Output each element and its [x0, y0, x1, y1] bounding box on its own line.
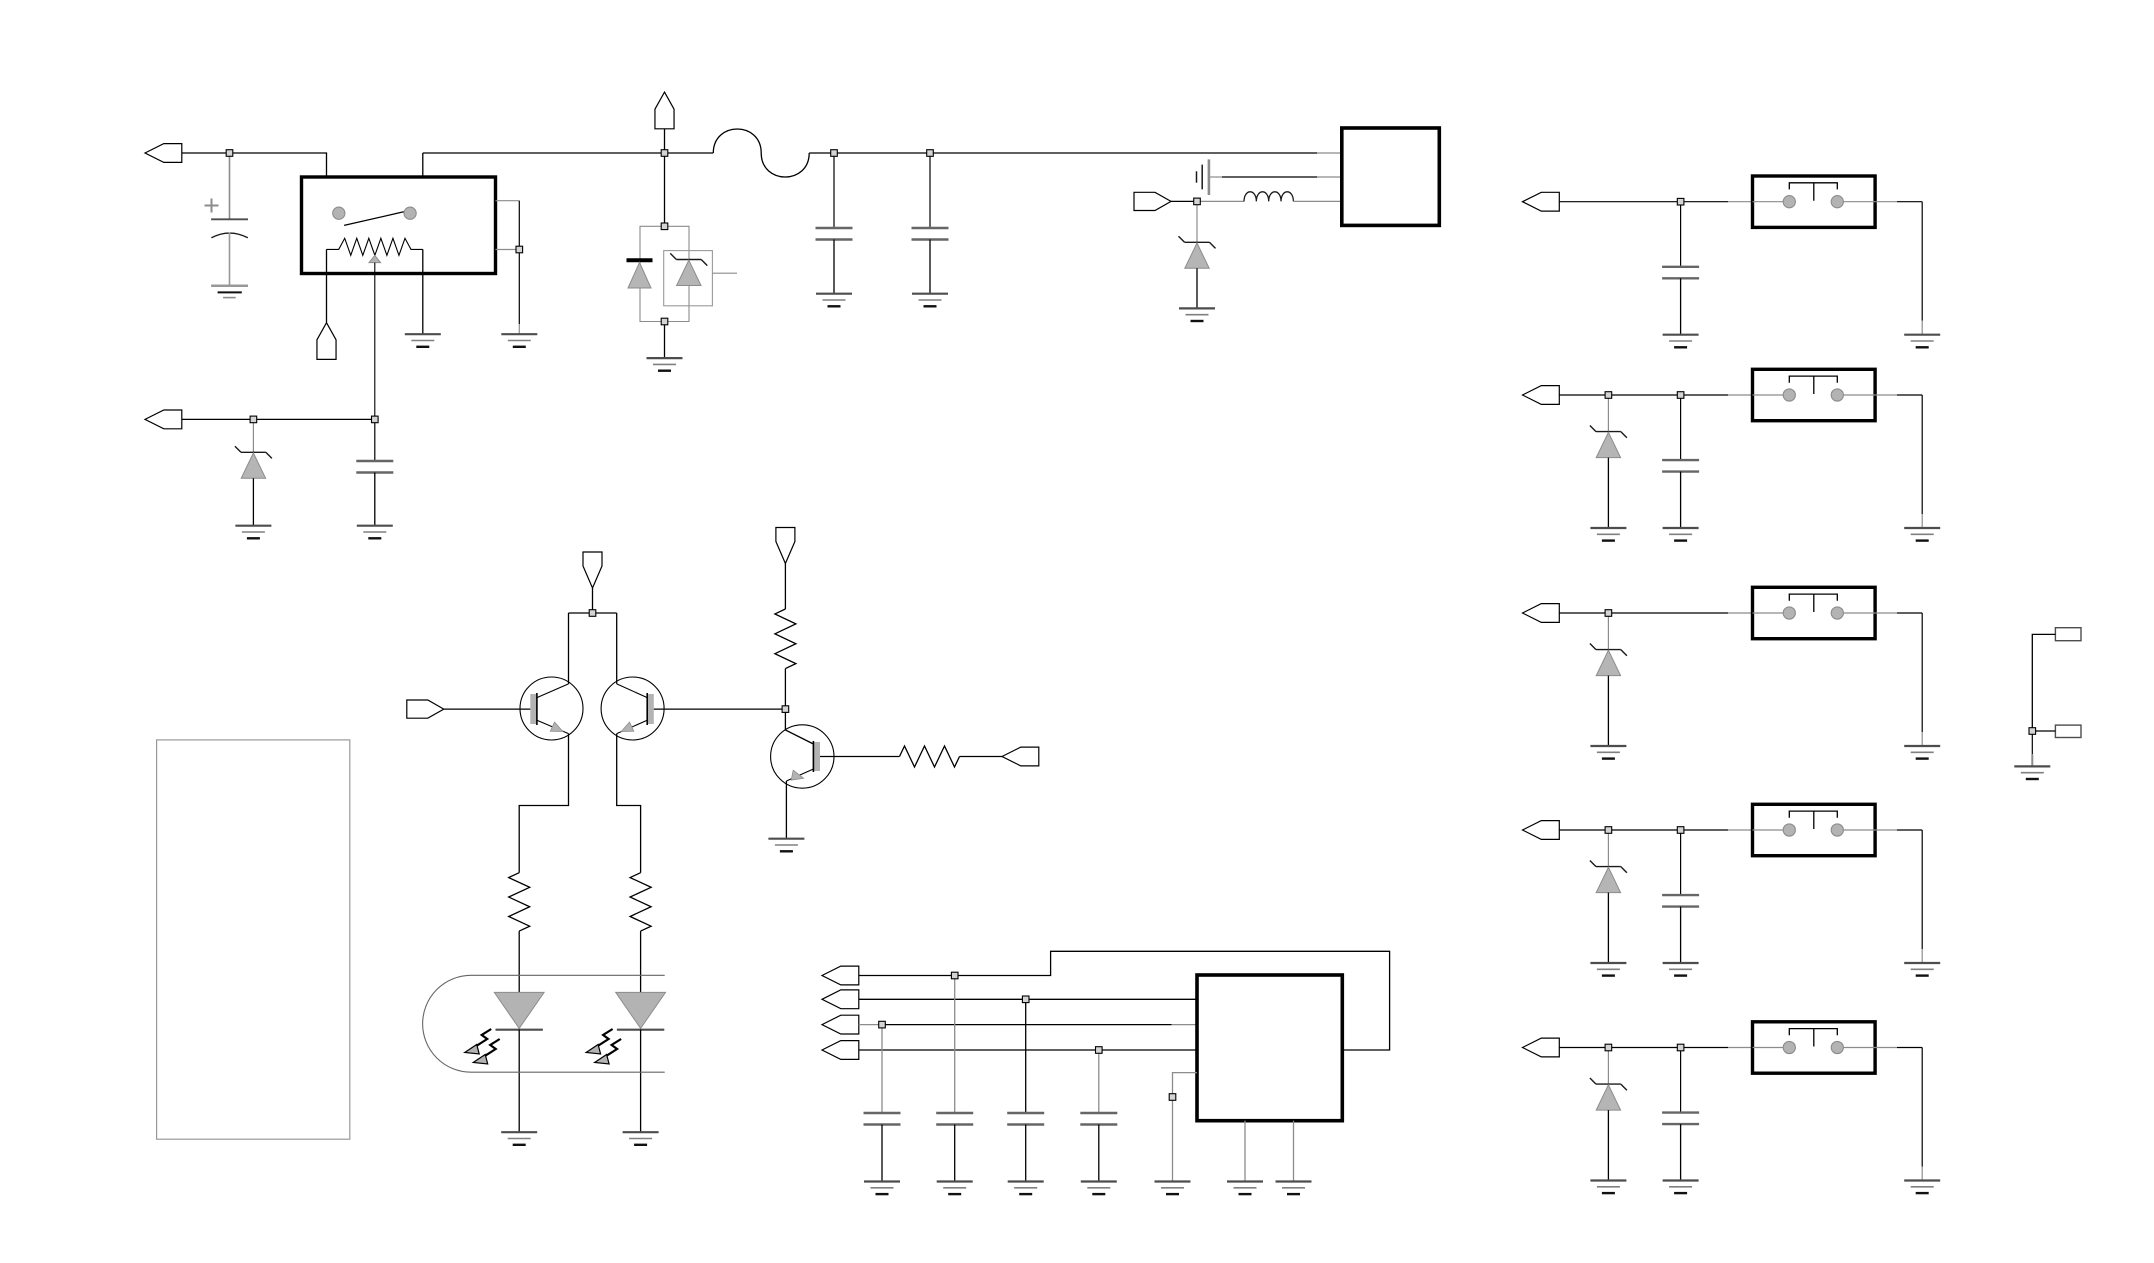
ground — [1904, 335, 1940, 348]
switch S2 actuator — [1789, 376, 1837, 394]
capacitor C10 — [1662, 398, 1699, 471]
capacitor C2 — [356, 423, 393, 473]
ground — [1663, 335, 1699, 348]
switch S1 contacts — [1753, 196, 1876, 208]
ground — [1590, 746, 1626, 759]
capacitor C6 — [936, 1113, 973, 1125]
relay switch blade — [344, 212, 404, 226]
wire switch 4 output to ground — [1875, 830, 1922, 963]
junction — [1605, 610, 1612, 617]
wire net label N1 to node — [2032, 634, 2055, 727]
connector P9 (drive B) — [1002, 747, 1039, 766]
wire node to ground — [2031, 734, 2033, 766]
capacitor C1 polarized plus sign — [205, 199, 219, 213]
wire chassis to IC pin 2 — [1210, 176, 1342, 178]
wire capacitor to ground row 4 — [1680, 907, 1682, 963]
transistor Q3 — [771, 725, 834, 788]
zener D4 — [1179, 236, 1216, 268]
wire zener stub — [1196, 205, 1198, 243]
wire connector to resistor R4 — [784, 564, 786, 610]
wire base Q3 to resistor R3 — [820, 756, 900, 758]
junction — [1677, 198, 1684, 205]
switch S4 contacts — [1753, 824, 1876, 836]
wire zener stub row 3 — [1607, 616, 1609, 649]
zener D8 — [1590, 426, 1627, 458]
ground — [1663, 1181, 1699, 1194]
wire rail segment to relay contact 1 — [182, 153, 333, 213]
IC U2 — [1197, 975, 1342, 1121]
switch S2 body — [1753, 369, 1876, 420]
frame box (empty) — [157, 740, 350, 1139]
junction — [516, 246, 523, 253]
ground — [1179, 308, 1215, 321]
junction — [1605, 392, 1612, 399]
junction — [661, 318, 668, 325]
ground — [1590, 528, 1626, 541]
switch S3 body — [1753, 587, 1876, 638]
wire LED2 to ground — [640, 1030, 642, 1132]
connector P10 (bus 1) — [822, 966, 859, 985]
wire switch 3 output to ground — [1875, 613, 1922, 746]
ground — [816, 294, 852, 307]
wire zener to ground row 3 — [1607, 676, 1609, 746]
switch S1 body — [1753, 176, 1876, 227]
IC U1 — [1342, 128, 1440, 225]
junction — [2029, 728, 2036, 735]
wire collector tee — [569, 613, 617, 684]
connector P2 (coil drive) — [317, 323, 336, 360]
wire connector to node — [592, 588, 594, 610]
junction — [1022, 996, 1029, 1003]
junction — [1677, 1044, 1684, 1051]
wire zener stub — [252, 423, 254, 453]
wire capacitor C6 to ground — [954, 1125, 956, 1182]
wire zener stub row 2 — [1607, 398, 1609, 431]
TVS box — [664, 251, 713, 306]
ground — [501, 334, 537, 347]
wire capacitor to ground row 2 — [1680, 472, 1682, 528]
capacitor C12 — [1662, 833, 1699, 906]
wire filter cap stub 4 — [1098, 1053, 1100, 1113]
wire node to Q3 collector — [785, 712, 813, 744]
wire zener to ground — [252, 478, 254, 525]
chassis ground (rotated) — [1197, 159, 1209, 195]
wire switch 2 output to ground — [1875, 395, 1922, 528]
junction — [661, 150, 668, 157]
wire IC U2 ground pin 2 — [1293, 1121, 1295, 1182]
wire bus 3 to IC U2 — [859, 1024, 1197, 1026]
zener D10 — [1590, 861, 1627, 893]
capacitor C3 — [816, 156, 853, 239]
wire zener to ground row 4 — [1607, 893, 1609, 963]
wire capacitor C5 to ground — [881, 1125, 883, 1182]
switch S5 contacts — [1753, 1041, 1876, 1053]
zener D2 — [235, 446, 272, 478]
wire connector to junction — [1171, 200, 1194, 202]
wire resistor R1 to LED1 — [518, 931, 520, 992]
transistor Q2 — [601, 677, 664, 740]
wire crossover hump — [713, 129, 809, 177]
ground — [1590, 963, 1626, 976]
switch S4 body — [1753, 804, 1876, 855]
LED D6 — [616, 992, 666, 1029]
relay K1 body — [302, 177, 496, 274]
connector P4 (fused supply) — [655, 92, 674, 129]
junction — [589, 610, 596, 617]
connector P12 (bus 3) — [822, 1015, 859, 1034]
wire resistor R3 to connector — [960, 756, 1003, 758]
wire zener stub row 4 — [1607, 833, 1609, 866]
connector P16 (switch 3 line) — [1523, 604, 1560, 623]
capacitor C13 — [1662, 1051, 1699, 1124]
wire capacitor C4 to ground — [929, 240, 931, 294]
wire side pin to ground — [1172, 1100, 1174, 1181]
junction — [1677, 827, 1684, 834]
ground — [501, 1132, 537, 1145]
wire TVS pin — [712, 272, 737, 274]
connector P1 (battery input) — [145, 144, 182, 163]
connector P7 (drive A) — [407, 700, 444, 718]
resistor R3 — [900, 746, 960, 767]
wire net label N2 to node — [2036, 730, 2056, 732]
switch S5 body — [1753, 1022, 1876, 1073]
relay coil wiper arrow — [369, 255, 381, 262]
inductor L1 — [1200, 192, 1342, 202]
wire zener stub row 5 — [1607, 1051, 1609, 1084]
net label N2 — [2055, 725, 2081, 737]
ground — [1081, 1182, 1117, 1195]
resistor R1 — [509, 873, 530, 931]
junction — [226, 150, 233, 157]
ground — [1227, 1182, 1263, 1195]
wire switch 4 input — [1559, 829, 1752, 831]
ground — [912, 294, 948, 307]
transistor Q1 — [520, 677, 583, 740]
connector P8 (bias supply) — [776, 528, 795, 564]
junction — [927, 150, 934, 157]
wire rail to IC U1 — [809, 152, 1342, 154]
wire filter cap stub 3 — [1025, 1003, 1027, 1113]
zener D9 — [1590, 644, 1627, 676]
wire switch 1 output to ground — [1875, 202, 1922, 335]
junction — [661, 223, 668, 230]
capacitor C8 — [1080, 1113, 1117, 1125]
capacitor C4 — [912, 156, 949, 239]
wire TVS block feed — [664, 156, 666, 223]
wire lower rail — [182, 418, 375, 420]
junction — [1096, 1047, 1103, 1054]
wire IC U2 ground pin 1 — [1244, 1121, 1246, 1182]
ground — [1904, 746, 1940, 759]
wire connector to rail — [664, 129, 666, 150]
junction — [831, 150, 838, 157]
ground — [211, 286, 248, 298]
connector P18 (switch 5 line) — [1523, 1038, 1560, 1057]
diode D1 — [627, 260, 653, 288]
wire capacitor C7 to ground — [1025, 1125, 1027, 1182]
wire filter cap stub 2 — [954, 979, 956, 1113]
wire resistor R2 to LED2 — [640, 931, 642, 992]
wire bus 1 loop to IC U2 right pin — [859, 951, 1390, 1050]
connector P17 (switch 4 line) — [1523, 821, 1560, 840]
zener D11 — [1590, 1078, 1627, 1110]
ground — [1276, 1182, 1312, 1195]
wire bus 2 to IC U2 — [859, 998, 1197, 1000]
LED D6 light arrows — [586, 1029, 621, 1064]
switch S1 actuator — [1789, 183, 1837, 201]
ground — [937, 1182, 973, 1195]
wire LED1 to ground — [518, 1030, 520, 1132]
ground — [2014, 766, 2050, 779]
wire switch 5 input — [1559, 1047, 1752, 1049]
wire switch 1 input — [1559, 201, 1752, 203]
ground — [1904, 528, 1940, 541]
wire bus 4 to IC U2 — [859, 1049, 1197, 1051]
junction — [372, 416, 379, 423]
wire emitter Q3 to ground — [785, 781, 787, 839]
wire relay case pins — [496, 201, 520, 334]
capacitor C1 (polarized) — [211, 153, 248, 286]
connector P14 (switch 1 line) — [1523, 192, 1560, 211]
wire rail segment from relay contact 2 — [423, 153, 714, 213]
wire capacitor C2 to ground — [374, 473, 376, 526]
ground — [1663, 963, 1699, 976]
wire relay pin 2 to ground — [422, 249, 424, 334]
connector P5 (antenna input) — [1134, 192, 1171, 210]
relay contact left — [333, 207, 345, 219]
ground — [1155, 1182, 1191, 1195]
junction — [250, 416, 257, 423]
ground — [405, 334, 441, 347]
resistor R4 — [775, 609, 796, 669]
junction — [951, 972, 958, 979]
wire resistor R4 to node — [784, 669, 786, 706]
switch S5 actuator — [1789, 1029, 1837, 1047]
wire filter cap stub 1 — [881, 1028, 883, 1113]
wire wiper to lower rail — [374, 263, 376, 420]
optocoupler outline — [423, 975, 665, 1072]
junction — [1169, 1094, 1176, 1101]
switch S3 contacts — [1753, 607, 1876, 619]
switch S2 contacts — [1753, 389, 1876, 401]
wire zener D4 to ground — [1196, 268, 1198, 308]
junction — [1605, 827, 1612, 834]
net label N1 — [2055, 628, 2081, 641]
wire TVS to ground — [664, 325, 666, 358]
ground — [1904, 1181, 1940, 1194]
wire emitter Q1 to resistor R1 — [519, 734, 568, 873]
wire switch 2 input — [1559, 394, 1752, 396]
junction — [782, 706, 789, 713]
wire zener to ground row 2 — [1607, 458, 1609, 528]
switch S3 actuator — [1789, 594, 1837, 612]
capacitor C5 — [864, 1113, 901, 1125]
wire IC U2 side pin — [1173, 1073, 1198, 1094]
relay coil winding — [327, 238, 423, 255]
wire capacitor to ground row 5 — [1680, 1124, 1682, 1180]
wire TVS branch frame — [640, 226, 689, 321]
connector P15 (switch 2 line) — [1523, 386, 1560, 405]
connector P13 (bus 4) — [822, 1041, 859, 1060]
junction — [1677, 392, 1684, 399]
LED D5 — [494, 992, 544, 1029]
switch S4 actuator — [1789, 811, 1837, 829]
wire switch 3 input — [1559, 612, 1752, 614]
capacitor C7 — [1007, 1113, 1044, 1125]
connector P3 (coil supply) — [145, 410, 182, 429]
wire capacitor C3 to ground — [833, 240, 835, 294]
resistor R2 — [630, 873, 651, 931]
wire capacitor C8 to ground — [1098, 1125, 1100, 1182]
wire base Q1 — [444, 708, 531, 710]
ground — [768, 839, 804, 852]
zener D3 (TVS) — [670, 253, 707, 285]
ground — [864, 1182, 900, 1195]
ground — [1663, 528, 1699, 541]
capacitor C9 — [1662, 205, 1699, 278]
junction — [1605, 1044, 1612, 1051]
ground — [623, 1132, 659, 1145]
wire capacitor to ground row 1 — [1680, 278, 1682, 334]
ground — [357, 526, 393, 539]
ground — [1590, 1181, 1626, 1194]
wire zener to ground row 5 — [1607, 1110, 1609, 1180]
ground — [235, 526, 271, 539]
wire base Q2 to node — [654, 708, 782, 710]
wire relay pin 1 down — [326, 249, 328, 322]
junction — [879, 1021, 886, 1028]
connector P6 (LED supply) — [583, 552, 602, 588]
ground — [1904, 963, 1940, 976]
junction — [1194, 198, 1201, 205]
ground — [1008, 1182, 1044, 1195]
LED D5 light arrows — [465, 1029, 500, 1064]
ground — [647, 358, 683, 371]
relay contact right — [404, 207, 416, 219]
wire switch 5 output to ground — [1875, 1048, 1922, 1181]
wire emitter Q2 to resistor R2 — [617, 734, 641, 873]
connector P11 (bus 2) — [822, 990, 859, 1009]
